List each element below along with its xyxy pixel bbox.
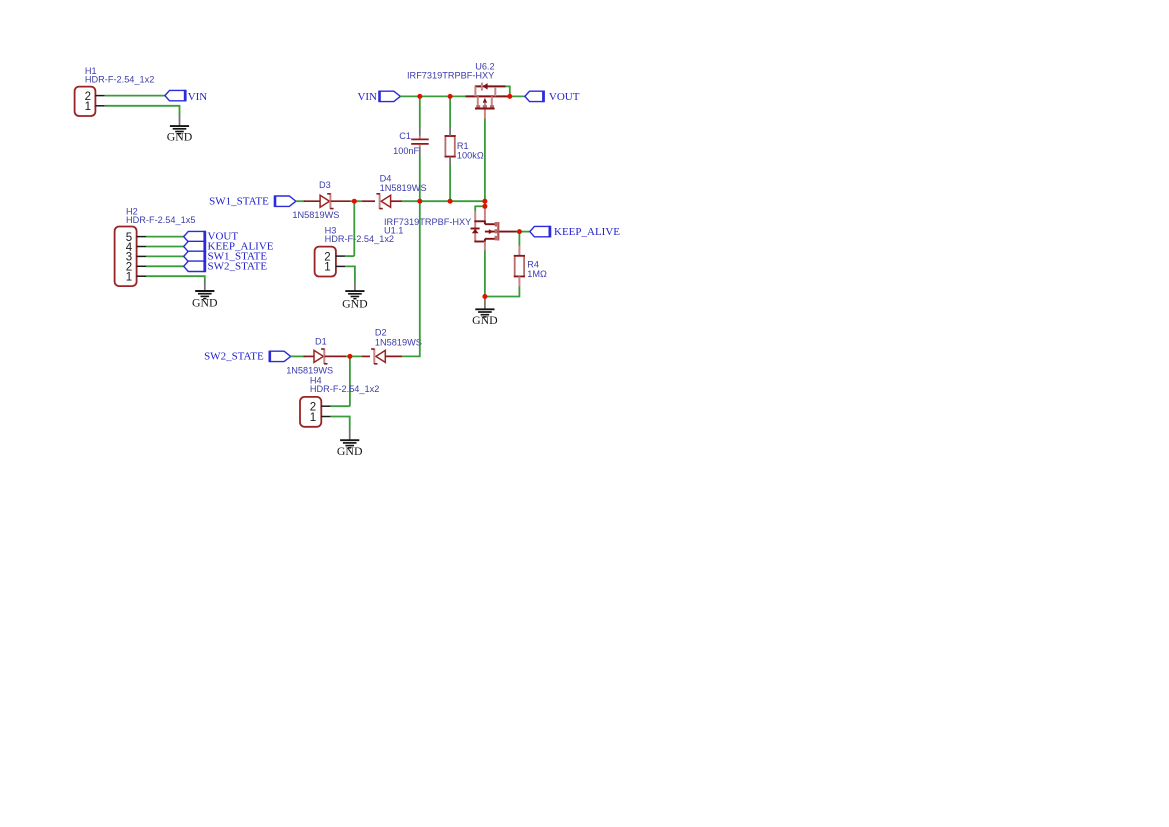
diode D4 (376, 173, 426, 209)
svg-text:1N5819WS: 1N5819WS (375, 337, 422, 347)
resistor R1 (445, 136, 484, 161)
svg-text:1: 1 (324, 262, 330, 274)
svg-text:D4: D4 (380, 173, 392, 183)
svg-text:D1: D1 (315, 337, 327, 347)
ground (337, 430, 363, 459)
wire (105, 95, 165, 97)
connector H1 (75, 66, 155, 116)
wire (402, 201, 420, 356)
svg-text:1N5819WS: 1N5819WS (292, 210, 339, 220)
ground (472, 297, 498, 328)
wire (518, 232, 520, 246)
wire (508, 95, 525, 97)
wire (402, 200, 485, 202)
port SW1_STATE (209, 195, 296, 207)
svg-text:D3: D3 (319, 180, 331, 190)
wire (449, 96, 451, 126)
diode D3 (292, 180, 339, 220)
transistor U1.1 (384, 217, 471, 235)
wire (146, 265, 184, 267)
wire (346, 355, 362, 357)
svg-text:VIN: VIN (357, 91, 377, 103)
transistor U6.2 (407, 62, 508, 119)
svg-text:1: 1 (126, 272, 132, 284)
wire (296, 200, 305, 202)
svg-text:100nF: 100nF (393, 146, 419, 156)
wire (345, 266, 355, 281)
svg-text:GND: GND (342, 296, 368, 310)
wire (484, 251, 486, 297)
svg-text:1N5819WS: 1N5819WS (380, 183, 427, 193)
wire (517, 231, 530, 233)
svg-text:HDR-F-2.54_1x2: HDR-F-2.54_1x2 (310, 384, 379, 394)
svg-text:SW2_STATE: SW2_STATE (204, 351, 264, 363)
svg-text:1: 1 (85, 101, 91, 113)
connector H3 (315, 225, 394, 276)
junction (448, 94, 453, 99)
port VIN (165, 90, 207, 103)
svg-text:VIN: VIN (188, 91, 208, 103)
port KEEP_ALIVE (184, 241, 274, 253)
junction (347, 354, 352, 359)
svg-text:1MΩ: 1MΩ (527, 269, 547, 279)
svg-text:HDR-F-2.54_1x5: HDR-F-2.54_1x5 (126, 215, 195, 225)
svg-text:C1: C1 (399, 131, 411, 141)
svg-text:R4: R4 (527, 260, 539, 270)
resistor R4 (514, 256, 547, 279)
svg-text:SW1_STATE: SW1_STATE (209, 195, 269, 207)
wire (146, 236, 184, 238)
wire (146, 276, 205, 282)
wire (506, 86, 510, 96)
port VOUT (525, 91, 580, 103)
svg-text:R1: R1 (457, 141, 469, 151)
wire (353, 201, 355, 256)
wire (484, 201, 486, 206)
junction (482, 294, 487, 299)
wire (349, 356, 351, 406)
port SW2_STATE (204, 351, 291, 363)
svg-text:HDR-F-2.54_1x2: HDR-F-2.54_1x2 (85, 75, 154, 85)
wire (331, 417, 350, 430)
junction (352, 199, 357, 204)
svg-text:100kΩ: 100kΩ (457, 151, 484, 161)
svg-text:1: 1 (310, 412, 316, 424)
svg-text:HDR-F-2.54_1x2: HDR-F-2.54_1x2 (325, 234, 394, 244)
capacitor C1 (393, 127, 429, 157)
diode D1 (286, 337, 333, 376)
port SW2_STATE (184, 260, 268, 272)
junction (507, 94, 512, 99)
svg-text:D2: D2 (375, 328, 387, 338)
port VOUT (184, 231, 239, 243)
wire (146, 255, 184, 257)
wire (400, 95, 465, 97)
transistor U1.1 body (471, 206, 517, 251)
wire (485, 287, 520, 297)
wire (419, 96, 421, 126)
ground (192, 282, 218, 310)
svg-text:IRF7319TRPBF-HXY: IRF7319TRPBF-HXY (407, 71, 494, 81)
junction (482, 199, 487, 204)
svg-text:GND: GND (337, 444, 363, 458)
junction (448, 199, 453, 204)
diode D2 (371, 328, 422, 365)
wire (449, 166, 451, 202)
connector H4 (300, 376, 379, 427)
wire (484, 119, 486, 202)
svg-text:1N5819WS: 1N5819WS (286, 366, 333, 376)
port SW1_STATE (184, 251, 268, 263)
wire (345, 255, 354, 257)
junction (417, 94, 422, 99)
svg-text:KEEP_ALIVE: KEEP_ALIVE (554, 226, 620, 238)
connector H2 (115, 206, 196, 286)
wire (146, 246, 184, 248)
junction (417, 199, 422, 204)
wire (475, 205, 485, 207)
svg-text:GND: GND (472, 313, 498, 327)
wire (105, 106, 180, 117)
svg-text:VOUT: VOUT (549, 91, 580, 103)
wire (351, 200, 355, 202)
svg-text:SW2_STATE: SW2_STATE (208, 260, 268, 272)
svg-text:GND: GND (167, 130, 193, 144)
ground (342, 281, 368, 311)
wire (419, 156, 421, 202)
port KEEP_ALIVE (530, 226, 620, 238)
junction (482, 204, 487, 209)
wire (331, 405, 350, 407)
wire (354, 200, 362, 202)
ground (167, 116, 193, 143)
junction (517, 229, 522, 234)
port VIN (357, 91, 400, 103)
wire (291, 355, 305, 357)
svg-text:GND: GND (192, 296, 218, 310)
